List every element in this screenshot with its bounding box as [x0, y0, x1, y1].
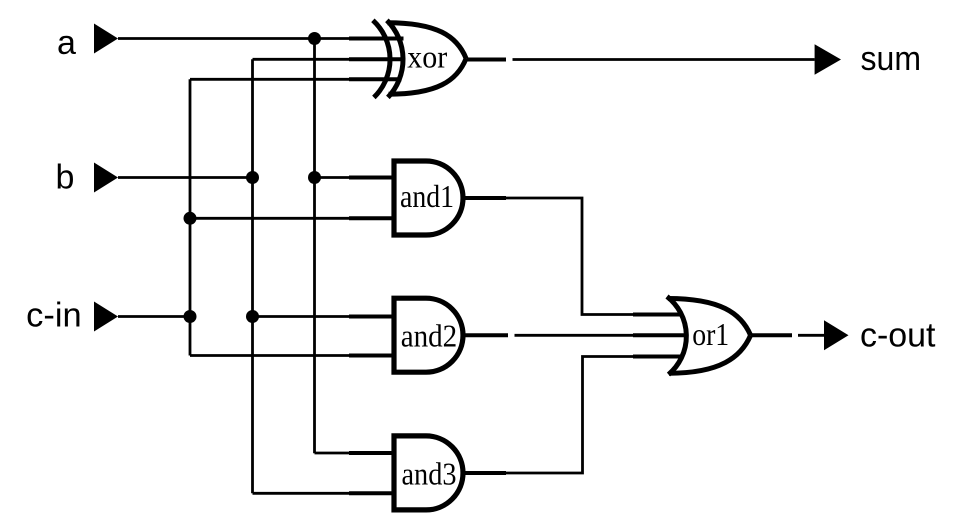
wire a to and3 input1: [315, 452, 351, 455]
xor gate extra input arc: [373, 20, 390, 97]
wire b to and3 input2: [253, 492, 351, 495]
or1 output stub: [751, 333, 792, 337]
wire b horizontal: [118, 176, 253, 179]
wire net c-in vertical: [189, 79, 192, 355]
svg-text:and3: and3: [402, 456, 457, 492]
xor gate body left arc: [387, 20, 403, 97]
output port arrow sum: [815, 44, 841, 75]
wire and3 to or1: [500, 357, 634, 474]
output port arrow c-out: [824, 320, 849, 350]
svg-text:c-out: c-out: [860, 317, 936, 355]
or1 input3 stub: [633, 355, 680, 359]
and3 gate body: [394, 436, 463, 510]
node a to and1 dot: [308, 171, 321, 184]
node c-in to and1 dot: [184, 212, 197, 225]
wire sum: [513, 58, 815, 61]
input port triangle a: [94, 24, 118, 54]
node a junction dot: [308, 32, 321, 45]
svg-text:b: b: [56, 159, 75, 197]
wire b to xor input2: [253, 58, 351, 61]
wire and2 input1 stub: [349, 315, 394, 319]
or1 gate left arc: [667, 297, 686, 375]
or1 input2 stub: [633, 333, 689, 337]
and1 output stub: [463, 196, 506, 200]
wire xor input3 stub: [349, 77, 402, 81]
or1 gate bottom curve: [669, 335, 751, 373]
svg-text:sum: sum: [861, 40, 922, 78]
or1 input1 stub: [633, 313, 680, 317]
node b to and2 dot: [246, 310, 259, 323]
xor gate body bottom curve: [389, 59, 467, 95]
and2 output stub: [463, 333, 508, 337]
wire and1 to or1: [497, 198, 634, 315]
wire c-in to and2 input2: [190, 354, 350, 357]
wire net b vertical: [251, 59, 254, 493]
xor gate body top curve: [388, 23, 467, 59]
wire and1 input2 stub: [349, 216, 394, 220]
wire and1 input1 stub: [349, 176, 394, 180]
input port triangle c-in: [94, 302, 118, 332]
and1 gate body: [394, 161, 463, 235]
wire xor input1 stub: [349, 37, 404, 41]
and3 output stub: [463, 471, 506, 475]
svg-text:a: a: [57, 24, 76, 62]
wire c-in to xor input3: [190, 78, 350, 81]
node b junction dot: [246, 171, 259, 184]
wire c-out: [798, 334, 824, 337]
xor gate output stub: [467, 58, 507, 62]
or1 gate top curve: [668, 299, 751, 336]
and2 gate body: [394, 298, 463, 372]
wire and2 to or1: [515, 334, 635, 337]
wire and2 input2 stub: [349, 354, 394, 358]
wire b to and2 input1: [253, 315, 351, 318]
svg-text:xor: xor: [407, 38, 447, 74]
wire a horizontal: [118, 37, 350, 40]
wire and3 input1 stub: [349, 451, 394, 455]
input port triangle b: [94, 163, 118, 193]
svg-text:and1: and1: [400, 178, 454, 214]
wire net a vertical: [313, 39, 316, 454]
svg-text:or1: or1: [692, 316, 729, 352]
svg-text:and2: and2: [401, 317, 458, 353]
wire c-in to and1 input2: [190, 217, 350, 220]
wire and3 input2 stub: [349, 491, 394, 495]
wire c-in horizontal: [118, 315, 190, 318]
node c-in junction dot: [184, 310, 197, 323]
wire a to and1 input1: [315, 176, 351, 179]
svg-text:c-in: c-in: [26, 297, 81, 335]
wire xor input2 stub: [349, 57, 403, 61]
